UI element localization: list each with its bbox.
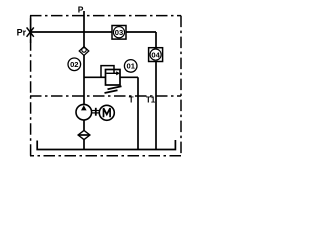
svg-text:T: T xyxy=(129,96,134,105)
svg-text:01: 01 xyxy=(126,62,135,71)
svg-text:T1: T1 xyxy=(146,96,156,105)
svg-text:03: 03 xyxy=(115,28,123,37)
svg-text:P: P xyxy=(78,4,84,14)
svg-text:02: 02 xyxy=(70,60,78,69)
svg-text:Pr: Pr xyxy=(17,27,27,37)
svg-text:04: 04 xyxy=(151,50,160,59)
